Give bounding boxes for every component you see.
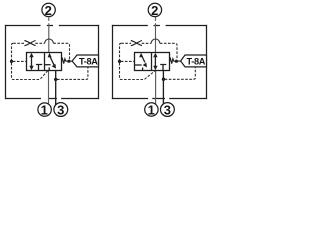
valve V1 right square blocked branch stub [48, 67, 50, 70]
orifice X symbol (left) [24, 41, 35, 46]
boundary box (left schematic) top edge [5, 25, 99, 27]
port 3 line (right) [162, 71, 164, 105]
junction dot on envelope left edge (right) [118, 60, 121, 63]
tag connector wire (right) [178, 60, 181, 62]
tag connector wire (left) [70, 60, 72, 62]
svg-text:1: 1 [41, 103, 48, 118]
valve V1 body [27, 53, 62, 71]
port 3 circle (right) [161, 103, 175, 117]
pilot line hop over port 2 line (right) [151, 39, 160, 43]
pilot stub to valve left edge (left) [13, 60, 27, 62]
junction dot on port 3 line (right) [162, 78, 165, 81]
svg-text:2: 2 [45, 3, 52, 18]
valve V2 left square blocked branch bar [135, 64, 142, 66]
svg-text:T-8A: T-8A [79, 56, 98, 66]
junction dot spring/pilot (left) [67, 60, 70, 63]
valve V2 left square blocked branch stub [142, 68, 144, 71]
orifice X symbol (right) [131, 41, 142, 46]
cavity tag T-8A (left) [72, 55, 98, 67]
valve V1 right square blocked branch bar [45, 64, 51, 66]
pilot envelope top edge segments (left) [13, 42, 45, 44]
valve V2 body [135, 53, 170, 71]
port 2 circle (left) [42, 3, 55, 16]
valve V1 divider [44, 53, 46, 71]
pilot line hop over port 2 line (left) [45, 39, 54, 43]
pilot envelope left edge + bottom edge + diagonal to valve (left) [12, 43, 48, 79]
svg-text:2: 2 [151, 3, 158, 18]
port 1 line (right) [155, 71, 157, 105]
cavity tag T-8A (right) [181, 55, 207, 67]
boundary box (right schematic) right edge [206, 25, 208, 99]
pilot stub to valve left edge (right) [121, 60, 135, 62]
svg-text:3: 3 [164, 103, 171, 118]
boundary box (left schematic) right edge [98, 25, 100, 99]
valve V2 right square double arrow [153, 53, 157, 71]
junction dot on port 3 line (left) [54, 78, 57, 81]
junction dot on envelope left edge (left) [10, 60, 13, 63]
valve V2 divider [151, 53, 153, 71]
pilot top edge right part + drop to spring dot (left) [53, 43, 69, 60]
pilot envelope top edge segments (right) [121, 42, 151, 44]
boundary box (right schematic) left edge [112, 25, 114, 99]
valve V2 right square blocked port T [160, 65, 166, 71]
junction dot spring/pilot (right) [175, 60, 178, 63]
port 3 circle (left) [54, 103, 68, 117]
port 1 circle (left) [38, 103, 51, 116]
svg-text:3: 3 [57, 103, 64, 118]
port 2 line (right) [155, 17, 157, 53]
port 3 line (left) [55, 71, 57, 105]
boundary box (left schematic) left edge [5, 25, 7, 99]
port 2 line (left) [48, 17, 50, 53]
boundary box (right schematic) top edge [112, 25, 207, 27]
pilot from port3 dot to tag bottom (right) [165, 67, 196, 79]
valve V1 left square blocked port T [36, 65, 42, 71]
port 2 circle (right) [148, 3, 161, 16]
valve V2 left square bent arrow [139, 53, 147, 68]
valve V1 left square double arrow [29, 53, 33, 71]
pilot from port3 dot to tag bottom (left) [57, 67, 88, 79]
spring (right valve) [170, 59, 175, 64]
port 1 circle (right) [145, 103, 158, 116]
svg-text:1: 1 [148, 103, 155, 118]
pilot envelope left edge + bottom edge + diagonal to valve (right) [120, 43, 156, 79]
spring (left valve) [62, 59, 68, 64]
svg-text:T-8A: T-8A [186, 56, 205, 66]
port 1 line (left) [48, 71, 50, 105]
valve V1 right square bent arrow [48, 53, 56, 69]
boundary box (right schematic) bottom edge [112, 98, 207, 100]
pilot top edge right part + drop to spring dot (right) [160, 43, 177, 60]
boundary box (left schematic) bottom edge [5, 98, 99, 100]
